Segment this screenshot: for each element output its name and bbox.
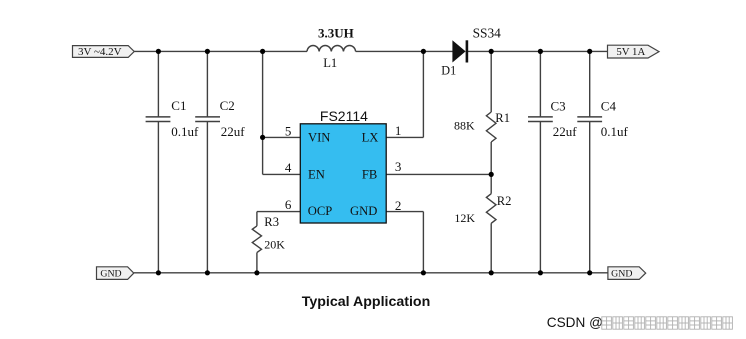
- svg-text:SS34: SS34: [473, 26, 502, 41]
- svg-text:5: 5: [285, 124, 292, 139]
- svg-text:12K: 12K: [454, 211, 475, 225]
- svg-text:22uf: 22uf: [221, 124, 246, 139]
- svg-text:FB: FB: [362, 167, 377, 181]
- svg-text:22uf: 22uf: [553, 124, 578, 139]
- svg-text:R2: R2: [497, 194, 512, 208]
- svg-text:Typical Application: Typical Application: [302, 294, 431, 310]
- svg-text:OCP: OCP: [308, 204, 333, 218]
- svg-text:R1: R1: [495, 111, 510, 125]
- svg-text:0.1uf: 0.1uf: [171, 124, 199, 139]
- svg-text:GND: GND: [100, 269, 121, 280]
- svg-text:VIN: VIN: [308, 130, 330, 144]
- svg-text:LX: LX: [362, 130, 379, 144]
- svg-text:88K: 88K: [454, 119, 475, 133]
- svg-text:C4: C4: [601, 99, 617, 114]
- svg-text:4: 4: [285, 160, 292, 175]
- svg-text:20K: 20K: [264, 237, 285, 251]
- svg-text:GND: GND: [350, 204, 377, 218]
- svg-text:C2: C2: [220, 98, 235, 113]
- svg-text:D1: D1: [441, 63, 456, 77]
- svg-text:5V 1A: 5V 1A: [616, 46, 645, 58]
- svg-text:3: 3: [395, 159, 402, 174]
- svg-text:FS2114: FS2114: [320, 108, 368, 124]
- svg-text:3.3UH: 3.3UH: [318, 26, 354, 41]
- svg-text:2: 2: [395, 198, 402, 213]
- svg-text:1: 1: [395, 123, 402, 138]
- svg-text:EN: EN: [308, 167, 325, 181]
- svg-text:GND: GND: [611, 269, 632, 280]
- svg-text:C1: C1: [171, 98, 186, 113]
- svg-text:0.1uf: 0.1uf: [601, 124, 629, 139]
- svg-text:CSDN @: CSDN @: [547, 315, 603, 330]
- svg-text:3V ~4.2V: 3V ~4.2V: [78, 46, 122, 58]
- svg-text:6: 6: [285, 197, 292, 212]
- svg-text:L1: L1: [323, 56, 337, 70]
- svg-text:R3: R3: [264, 215, 279, 229]
- svg-text:C3: C3: [551, 99, 566, 114]
